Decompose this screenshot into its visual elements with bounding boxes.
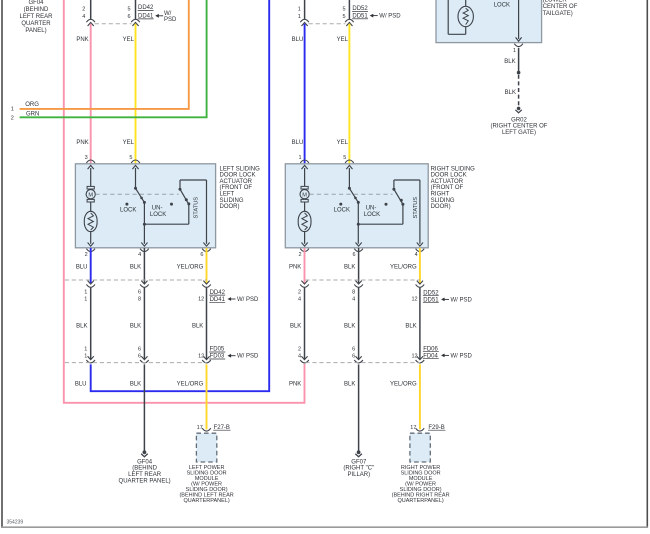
svg-text:QUARTERPANEL): QUARTERPANEL) bbox=[183, 498, 229, 504]
svg-text:YEL/ORG: YEL/ORG bbox=[177, 264, 204, 270]
label PNK lower bbox=[76, 140, 88, 146]
pin 12 bbox=[411, 297, 417, 303]
ground GF04 bbox=[141, 450, 148, 456]
svg-text:SLIDING: SLIDING bbox=[220, 198, 244, 204]
connector label DD52 bbox=[352, 6, 368, 12]
pin 2 bbox=[82, 7, 85, 13]
svg-text:6: 6 bbox=[200, 252, 203, 258]
wire YEL/ORG col F to module F29-B bbox=[419, 364, 421, 429]
svg-text:6: 6 bbox=[352, 252, 355, 258]
svg-text:5: 5 bbox=[129, 155, 132, 161]
pin 2 (GRN) bbox=[11, 115, 14, 121]
label RIGHT SLIDING ... (component name) bbox=[431, 166, 476, 210]
label YEL bbox=[123, 37, 135, 43]
ground GF07 bbox=[355, 450, 362, 456]
svg-text:ORG: ORG bbox=[25, 102, 39, 108]
svg-text:QUARTERPANEL): QUARTERPANEL) bbox=[397, 498, 443, 504]
wire BLU loop (left actuator pin 2 to top) bbox=[91, 0, 270, 391]
svg-text:4: 4 bbox=[352, 297, 355, 303]
svg-text:PSD: PSD bbox=[164, 17, 177, 23]
wire YEL/ORG left actuator pin 6 down bbox=[206, 248, 208, 283]
wire BLK (col D between connectors) bbox=[304, 288, 306, 360]
wire BLK col B to ground GF04 bbox=[143, 364, 145, 451]
svg-text:(FRONT OF: (FRONT OF bbox=[220, 185, 253, 191]
svg-text:BLU: BLU bbox=[292, 37, 304, 43]
pin 1 / pin 1 bbox=[84, 289, 87, 302]
label BLK (dashed segment) bbox=[505, 90, 516, 96]
svg-text:1: 1 bbox=[299, 155, 302, 161]
lock/unlock switch bbox=[134, 168, 146, 244]
inline connector DD42/DD41 row1 bbox=[140, 281, 149, 288]
label UN-LOCK bbox=[364, 206, 380, 218]
svg-text:4: 4 bbox=[415, 252, 418, 258]
svg-text:W/ PSD: W/ PSD bbox=[451, 297, 473, 303]
inline connector DD52/DD51 row1 bbox=[300, 281, 309, 288]
inline connector FD05/FD03 row2 bbox=[202, 356, 211, 363]
svg-text:8: 8 bbox=[138, 297, 141, 303]
wire BLK (col F between connectors) bbox=[419, 288, 421, 360]
svg-text:5: 5 bbox=[343, 7, 346, 13]
module connector pin 17 F29-B bbox=[410, 425, 424, 431]
pin 12 (row2) bbox=[198, 354, 204, 360]
pin 2 / pin 4 (row2) bbox=[298, 347, 301, 360]
svg-text:BLK: BLK bbox=[505, 90, 516, 96]
svg-text:RIGHT SLIDING: RIGHT SLIDING bbox=[431, 166, 476, 172]
inline connector at GF04 (left, pins 2/4) bbox=[86, 19, 95, 26]
svg-text:DOOR LOCK: DOOR LOCK bbox=[220, 173, 256, 179]
pin 1 (ORG) bbox=[11, 106, 14, 112]
svg-text:PNK: PNK bbox=[289, 382, 301, 388]
pin 3 (top) bbox=[85, 155, 95, 169]
wire BLK col E to ground GF07 bbox=[358, 364, 360, 451]
svg-text:BLK: BLK bbox=[130, 324, 141, 330]
svg-text:17: 17 bbox=[410, 425, 416, 431]
label YEL bbox=[337, 37, 349, 43]
svg-text:DOOR LOCK: DOOR LOCK bbox=[431, 173, 467, 179]
junction dot (switch common) bbox=[357, 223, 360, 226]
label LEFT SLIDING ... (component name) bbox=[220, 166, 261, 210]
svg-text:YEL/ORG: YEL/ORG bbox=[390, 264, 417, 270]
svg-text:(RIGHT CENTER OF: (RIGHT CENTER OF bbox=[491, 124, 548, 130]
svg-text:1: 1 bbox=[84, 354, 87, 360]
connector label DD42 bbox=[138, 5, 154, 11]
right sliding door lock actuator box bbox=[285, 164, 428, 248]
svg-text:BLK: BLK bbox=[405, 324, 416, 330]
pin 8 / pin 4 bbox=[352, 289, 355, 302]
label BLK bbox=[290, 324, 301, 330]
svg-text:GF07: GF07 bbox=[351, 459, 367, 465]
wire BLK right actuator pin 6 down bbox=[358, 248, 360, 283]
svg-text:ACTUATOR: ACTUATOR bbox=[220, 179, 253, 185]
connector label DD52 (row1) bbox=[423, 290, 439, 296]
svg-text:1: 1 bbox=[84, 297, 87, 303]
label LEFT POWER SLIDING DOOR MODULE bbox=[179, 465, 233, 504]
wire BLK stub above connector (pins 2/4) bbox=[90, 0, 92, 19]
wire BLK dashed to ground bbox=[518, 75, 520, 107]
svg-text:17: 17 bbox=[197, 425, 203, 431]
wire YEL/ORG col C to module F27-B bbox=[206, 364, 208, 429]
svg-text:LEFT REAR: LEFT REAR bbox=[128, 472, 162, 478]
inline connector DD42/DD41 (top) bbox=[131, 19, 140, 26]
right power sliding door module box bbox=[410, 433, 430, 462]
svg-text:YEL/ORG: YEL/ORG bbox=[390, 382, 417, 388]
svg-text:GR02: GR02 bbox=[511, 117, 527, 123]
wire YEL/ORG right actuator pin 4 down bbox=[419, 248, 421, 283]
mechanical linkage (dashed) bbox=[309, 193, 392, 195]
left power sliding door module box bbox=[196, 433, 216, 462]
connector label FD04 with W/ PSD arrow bbox=[423, 353, 473, 359]
dashed connector mate line row1 left bbox=[65, 279, 207, 281]
connector label DD42 (row1) bbox=[209, 290, 225, 296]
svg-text:LOCK: LOCK bbox=[364, 212, 380, 218]
pin 4 (bottom) bbox=[138, 243, 149, 258]
svg-text:BLK: BLK bbox=[344, 324, 355, 330]
svg-text:TAILGATE): TAILGATE) bbox=[543, 11, 573, 17]
inline connector (right, pins 1/1) bbox=[300, 19, 309, 26]
contact STATUS (open) bbox=[385, 203, 388, 206]
svg-text:YEL: YEL bbox=[123, 140, 135, 146]
svg-text:W/ PSD: W/ PSD bbox=[379, 13, 401, 19]
connector label DD41 (row1) with W/ PSD arrow bbox=[209, 297, 259, 303]
label BLK bbox=[344, 264, 355, 270]
svg-text:1: 1 bbox=[298, 14, 301, 20]
ground label GR02 bbox=[491, 117, 548, 136]
pin 2 (bottom) bbox=[298, 243, 308, 258]
solenoid coil (liftgate lock) bbox=[448, 0, 473, 34]
wire BLK (col B between connectors) bbox=[143, 288, 145, 360]
dashed connector mate line row2 left bbox=[65, 362, 207, 364]
svg-text:6: 6 bbox=[352, 354, 355, 360]
label BLK bbox=[405, 324, 416, 330]
inline connector DD52/DD51 (top) bbox=[345, 19, 354, 26]
svg-text:12: 12 bbox=[198, 297, 204, 303]
junction dot (switch common) bbox=[143, 223, 146, 226]
wire PNK right actuator pin 2 down bbox=[304, 248, 306, 283]
label YEL lower bbox=[337, 140, 349, 146]
mechanical linkage (dashed) bbox=[96, 193, 179, 195]
inline connector DD42/DD41 row1 bbox=[86, 281, 95, 288]
label ORG bbox=[25, 102, 39, 108]
status switch bbox=[358, 180, 404, 224]
label PNK (lower) bbox=[289, 382, 301, 388]
pin 6 (bottom) bbox=[352, 243, 362, 258]
svg-text:DOOR): DOOR) bbox=[431, 204, 451, 210]
dashed connector mate line (right top) bbox=[309, 23, 346, 25]
pin 4 bbox=[82, 14, 85, 20]
pin 12 bbox=[198, 297, 204, 303]
coil (lock actuator winding) bbox=[298, 211, 311, 244]
svg-text:STATUS: STATUS bbox=[413, 197, 419, 219]
wire BLK (col C between connectors) bbox=[206, 288, 208, 360]
node GF04 label (behind left rear quarter panel) bbox=[20, 0, 54, 34]
svg-text:GF04: GF04 bbox=[137, 459, 153, 465]
pin 5 (upper) bbox=[343, 7, 346, 13]
pin 1 / pin 1 (row2) bbox=[84, 347, 87, 360]
svg-text:QUARTER: QUARTER bbox=[21, 21, 51, 27]
label STATUS (rotated) bbox=[193, 197, 199, 219]
pin 5 bbox=[128, 7, 131, 13]
label BLK (lower) bbox=[130, 382, 141, 388]
svg-text:QUARTER PANEL): QUARTER PANEL) bbox=[119, 478, 171, 484]
svg-text:BLK: BLK bbox=[504, 59, 515, 65]
svg-text:BLK: BLK bbox=[290, 324, 301, 330]
svg-text:2: 2 bbox=[298, 252, 301, 258]
svg-text:LEFT GATE): LEFT GATE) bbox=[502, 130, 536, 136]
svg-text:LEFT REAR: LEFT REAR bbox=[20, 14, 54, 20]
svg-text:BLU: BLU bbox=[75, 382, 87, 388]
svg-text:GF04: GF04 bbox=[28, 0, 44, 6]
svg-text:2: 2 bbox=[85, 252, 88, 258]
wire YEL to right actuator pin 5 bbox=[348, 24, 350, 164]
svg-text:BLU: BLU bbox=[292, 140, 304, 146]
contact STATUS (open) bbox=[170, 203, 173, 206]
lock/unlock switch bbox=[348, 168, 360, 244]
wire PNK to left actuator pin 3 bbox=[90, 24, 92, 164]
svg-text:PNK: PNK bbox=[76, 37, 88, 43]
ground label GF07 bbox=[343, 459, 374, 478]
connector label DD51 with W/ PSD arrow bbox=[352, 13, 401, 19]
label BLU (lower) bbox=[75, 382, 87, 388]
label LOCK (liftgate) bbox=[494, 2, 510, 8]
connector label FD03 with W/ PSD arrow bbox=[209, 354, 259, 360]
svg-text:2: 2 bbox=[82, 7, 85, 13]
label BLU bbox=[76, 264, 88, 270]
pin 5 (top) bbox=[343, 155, 353, 169]
svg-text:BLK: BLK bbox=[130, 382, 141, 388]
svg-text:YEL: YEL bbox=[337, 37, 349, 43]
inline connector DD42/DD41 row1 bbox=[202, 281, 211, 288]
svg-text:ACTUATOR: ACTUATOR bbox=[431, 179, 464, 185]
svg-text:W/ PSD: W/ PSD bbox=[451, 353, 473, 359]
label YEL/ORG (lower) bbox=[390, 382, 417, 388]
svg-text:M: M bbox=[88, 192, 93, 198]
svg-text:5: 5 bbox=[128, 7, 131, 13]
label YEL/ORG (lower) bbox=[177, 382, 204, 388]
pin 6 (bottom) bbox=[200, 243, 210, 258]
wire PNK left outer (top to right actuator) bbox=[64, 0, 305, 403]
svg-text:1: 1 bbox=[84, 289, 87, 295]
wire BLK stub above connector (pins 1/1) bbox=[304, 0, 306, 19]
left sliding door lock actuator box bbox=[75, 164, 215, 248]
svg-text:2: 2 bbox=[298, 289, 301, 295]
contact LOCK (open) bbox=[125, 203, 128, 206]
pin 6 / pin 6 (row2) bbox=[138, 347, 141, 360]
svg-text:3: 3 bbox=[85, 155, 88, 161]
svg-text:(BEHIND: (BEHIND bbox=[132, 466, 157, 472]
pin 12 (row2) bbox=[411, 354, 417, 360]
splice junction bbox=[517, 71, 521, 75]
label YEL/ORG bbox=[177, 264, 204, 270]
svg-text:PNK: PNK bbox=[76, 140, 88, 146]
inline connector DD52/DD51 row1 bbox=[354, 281, 363, 288]
label YEL lower bbox=[123, 140, 135, 146]
coil (lock actuator winding) bbox=[84, 211, 97, 244]
liftgate pin 1 connector bbox=[513, 44, 523, 54]
svg-text:6: 6 bbox=[352, 347, 355, 353]
svg-text:4: 4 bbox=[298, 297, 301, 303]
connector label FD05 bbox=[209, 347, 225, 353]
pin 1 (upper) bbox=[298, 7, 301, 13]
svg-text:UN-: UN- bbox=[152, 206, 163, 212]
pin 2 (bottom) bbox=[85, 243, 95, 258]
inline connector FD06/FD04 row2 bbox=[416, 356, 425, 363]
svg-text:M: M bbox=[302, 192, 307, 198]
wire BLU to right actuator pin 1 bbox=[304, 24, 306, 164]
svg-text:(FRONT OF: (FRONT OF bbox=[431, 185, 464, 191]
wire BLK stub above connector DD52 bbox=[348, 0, 350, 19]
svg-text:PNK: PNK bbox=[289, 264, 301, 270]
svg-text:LOCK: LOCK bbox=[494, 2, 510, 8]
pin 2 / pin 4 bbox=[298, 289, 301, 302]
motor M bbox=[300, 168, 309, 211]
label BLK bbox=[130, 264, 141, 270]
label BLU lower bbox=[292, 140, 304, 146]
connector label F29-B bbox=[428, 425, 445, 431]
svg-text:6: 6 bbox=[138, 347, 141, 353]
dashed connector mate line (left top) bbox=[95, 23, 132, 25]
inline connector FD05/FD03 row2 bbox=[140, 356, 149, 363]
svg-text:(LOWER: (LOWER bbox=[543, 0, 568, 3]
svg-text:2: 2 bbox=[298, 347, 301, 353]
liftgate lock output wire with pin arrow bbox=[516, 0, 522, 41]
pin 4 (bottom) bbox=[415, 243, 425, 258]
connector label DD41 with W/ PSD arrow bbox=[138, 11, 177, 23]
svg-text:1: 1 bbox=[84, 347, 87, 353]
status output wire bbox=[394, 180, 420, 244]
svg-text:W/ PSD: W/ PSD bbox=[237, 354, 259, 360]
svg-text:2: 2 bbox=[11, 115, 14, 121]
status switch bbox=[144, 180, 190, 224]
pin 6 bbox=[128, 14, 131, 20]
wire ORG (circuit 1) bbox=[20, 0, 189, 109]
svg-text:GRN: GRN bbox=[26, 111, 39, 117]
dashed connector mate line row1 right bbox=[305, 279, 420, 281]
wire YEL to left actuator pin 5 bbox=[135, 24, 137, 164]
ground label GF04 bbox=[119, 459, 171, 484]
svg-text:6: 6 bbox=[138, 289, 141, 295]
svg-text:BLK: BLK bbox=[76, 324, 87, 330]
svg-text:1: 1 bbox=[11, 106, 14, 112]
wire GRN (circuit 2) bbox=[20, 0, 207, 117]
label PNK bbox=[289, 264, 301, 270]
svg-text:LEFT: LEFT bbox=[220, 192, 235, 198]
svg-text:LOCK: LOCK bbox=[120, 207, 136, 213]
label LOCK bbox=[120, 207, 136, 213]
svg-text:8: 8 bbox=[352, 289, 355, 295]
svg-text:4: 4 bbox=[82, 14, 85, 20]
svg-text:CENTER OF: CENTER OF bbox=[543, 4, 578, 10]
svg-text:SLIDING: SLIDING bbox=[431, 198, 455, 204]
label BLK bbox=[130, 324, 141, 330]
inline connector FD05/FD03 row2 bbox=[86, 356, 95, 363]
label BLK bbox=[344, 324, 355, 330]
svg-text:BLK: BLK bbox=[344, 382, 355, 388]
svg-text:4: 4 bbox=[138, 252, 141, 258]
pin 1 (lower) bbox=[298, 14, 301, 20]
svg-text:BLU: BLU bbox=[76, 264, 88, 270]
svg-text:LOCK: LOCK bbox=[334, 207, 350, 213]
label BLK (lower) bbox=[344, 382, 355, 388]
label GRN bbox=[26, 111, 39, 117]
dashed connector mate line row2 right bbox=[305, 362, 420, 364]
connector label F27-B bbox=[213, 425, 230, 431]
wire BLK (col A between connectors) bbox=[90, 288, 92, 360]
inline connector FD06/FD04 row2 bbox=[354, 356, 363, 363]
svg-text:PANEL): PANEL) bbox=[25, 28, 46, 34]
connector label DD51 (row1) with W/ PSD arrow bbox=[423, 297, 473, 303]
node label (lower center of tailgate) bbox=[543, 0, 578, 17]
svg-text:5: 5 bbox=[343, 155, 346, 161]
wire BLU left actuator pin 2 down bbox=[90, 248, 92, 283]
label LOCK bbox=[334, 207, 350, 213]
svg-text:1: 1 bbox=[513, 48, 516, 54]
liftgate lock actuator box (cropped at top) bbox=[436, 0, 542, 43]
label YEL/ORG bbox=[390, 264, 417, 270]
pin 5 (top) bbox=[129, 155, 139, 169]
label BLU bbox=[292, 37, 304, 43]
svg-text:PILLAR): PILLAR) bbox=[347, 472, 370, 478]
label BLK bbox=[192, 324, 203, 330]
svg-text:(RIGHT "C": (RIGHT "C" bbox=[343, 466, 374, 472]
svg-text:4: 4 bbox=[298, 354, 301, 360]
svg-text:6: 6 bbox=[138, 354, 141, 360]
pin 6 / pin 6 (row2) bbox=[352, 347, 355, 360]
svg-text:STATUS: STATUS bbox=[193, 197, 199, 219]
svg-text:6: 6 bbox=[128, 14, 131, 20]
svg-text:BLK: BLK bbox=[130, 264, 141, 270]
svg-text:YEL: YEL bbox=[123, 37, 135, 43]
pin 1 (top) bbox=[299, 155, 309, 169]
svg-text:BLK: BLK bbox=[192, 324, 203, 330]
wire BLK left actuator pin 4 down bbox=[143, 248, 145, 283]
svg-text:12: 12 bbox=[411, 297, 417, 303]
status output wire bbox=[180, 180, 207, 244]
pin 6 / pin 8 bbox=[138, 289, 141, 302]
svg-text:(BEHIND: (BEHIND bbox=[24, 7, 49, 13]
svg-text:RIGHT: RIGHT bbox=[431, 192, 450, 198]
connector label FD06 bbox=[423, 346, 439, 352]
svg-text:YEL: YEL bbox=[337, 140, 349, 146]
svg-text:LEFT SLIDING: LEFT SLIDING bbox=[220, 166, 261, 172]
svg-text:1: 1 bbox=[298, 7, 301, 13]
svg-text:LOCK: LOCK bbox=[150, 212, 166, 218]
svg-text:354239: 354239 bbox=[7, 519, 24, 525]
wire BLK liftgate ground feed bbox=[518, 48, 520, 72]
wire BLK stub above connector DD42 bbox=[135, 0, 137, 19]
svg-text:5: 5 bbox=[343, 14, 346, 20]
svg-text:UN-: UN- bbox=[366, 206, 377, 212]
svg-text:W/ PSD: W/ PSD bbox=[237, 297, 259, 303]
label BLK bbox=[76, 324, 87, 330]
label STATUS (rotated) bbox=[413, 197, 419, 219]
svg-text:BLK: BLK bbox=[344, 264, 355, 270]
label BLK bbox=[504, 59, 515, 65]
ground GR02 bbox=[515, 107, 521, 113]
module connector pin 17 F27-B bbox=[197, 425, 211, 431]
inline connector DD52/DD51 row1 bbox=[416, 281, 425, 288]
wire BLK (col E between connectors) bbox=[358, 288, 360, 360]
motor M bbox=[86, 168, 95, 211]
svg-text:DOOR): DOOR) bbox=[220, 204, 240, 210]
label PNK bbox=[76, 37, 88, 43]
label UN-LOCK bbox=[150, 206, 166, 218]
inline connector FD06/FD04 row2 bbox=[300, 356, 309, 363]
diagram number 354239 bbox=[7, 519, 24, 525]
pin 5 (lower) bbox=[343, 14, 346, 20]
label RIGHT POWER SLIDING DOOR MODULE bbox=[392, 465, 450, 504]
svg-text:YEL/ORG: YEL/ORG bbox=[177, 382, 204, 388]
contact LOCK (open) bbox=[339, 203, 342, 206]
